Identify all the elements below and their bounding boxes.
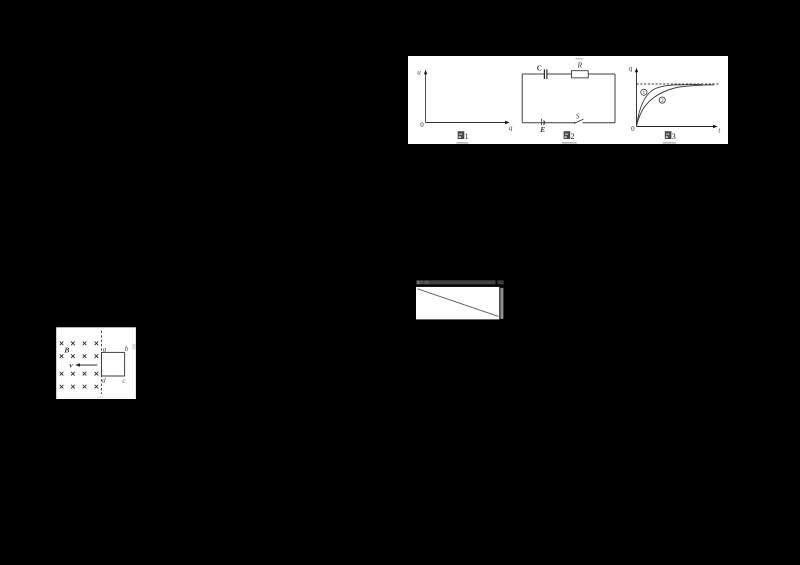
artifact bottom of panel <box>97 396 103 399</box>
svg-text:3: 3 <box>672 132 676 141</box>
axis q (fig3 vertical) <box>635 68 638 127</box>
svg-text:1: 1 <box>642 90 645 96</box>
object placeholder panel <box>416 287 499 320</box>
battery E <box>542 119 545 126</box>
caption 图3 <box>663 131 676 143</box>
object placeholder gray title bar <box>416 280 504 284</box>
axis t (fig3 horizontal) <box>637 125 718 128</box>
diagonal line <box>418 289 499 317</box>
switch S <box>574 119 584 124</box>
label circled 1 <box>641 89 647 96</box>
svg-text:0: 0 <box>631 125 635 133</box>
svg-text:u: u <box>417 67 421 76</box>
figure panel (top) <box>408 56 728 144</box>
caption 图1 <box>457 131 469 143</box>
resistor R <box>572 71 589 78</box>
svg-text:E: E <box>539 125 545 134</box>
svg-text:2: 2 <box>661 98 664 104</box>
wire loop (fig2 circuit) <box>522 74 615 123</box>
svg-text:d: d <box>102 377 106 385</box>
svg-text:q: q <box>629 64 633 73</box>
scrollbar strip <box>500 288 503 319</box>
svg-text:R: R <box>577 61 583 70</box>
asymptote dashed line <box>637 83 720 85</box>
svg-text:a: a <box>103 346 107 354</box>
curve 1 <box>637 84 702 125</box>
loop abcd <box>102 352 125 376</box>
svg-text:S: S <box>576 111 580 120</box>
svg-text:b: b <box>125 345 129 353</box>
velocity arrow v <box>75 363 97 367</box>
boundary dashed line <box>100 331 102 394</box>
svg-text:q: q <box>509 123 513 132</box>
field symbols B into page (x marks) <box>60 342 98 389</box>
artifact right of b <box>132 344 136 350</box>
axis u (fig1 vertical) <box>424 70 427 123</box>
artifact above R <box>576 58 583 60</box>
curve 2 <box>637 85 714 126</box>
svg-text:0: 0 <box>420 121 424 129</box>
field diagram panel <box>56 327 136 399</box>
caption 图2 <box>562 131 577 143</box>
svg-text:2: 2 <box>571 132 575 141</box>
capacitor C <box>544 69 547 79</box>
svg-text:C: C <box>537 65 542 73</box>
axis q (fig1 horizontal) <box>426 121 510 124</box>
svg-text:1: 1 <box>465 132 469 141</box>
label circled 2 <box>659 97 665 104</box>
svg-text:B: B <box>63 345 69 354</box>
